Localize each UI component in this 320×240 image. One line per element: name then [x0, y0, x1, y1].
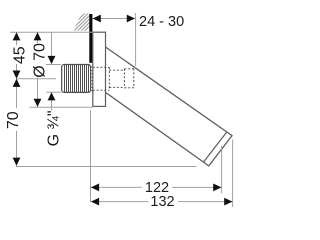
svg-text:70: 70	[5, 111, 22, 129]
extension line: spout lowest point	[16, 166, 196, 168]
dimension dia 70 line	[37, 32, 39, 107]
nut knurling	[65, 65, 89, 93]
dimension 122 right arrow	[213, 184, 221, 192]
dimension 132 right arrow	[224, 198, 232, 206]
extension line: 24-30 right	[135, 13, 137, 66]
dimension 122 left arrow	[91, 184, 99, 192]
extension line: spout tip 132	[232, 140, 234, 208]
dimension 45 top arrow	[13, 32, 21, 40]
dimension 24-30 left arrow	[93, 15, 101, 23]
wall face line	[89, 14, 92, 63]
dimension 24-30 line	[93, 18, 135, 20]
extension line: spout tip 122	[221, 146, 223, 193]
thread G3/4 top arrow	[48, 56, 56, 64]
union nut	[62, 65, 91, 93]
thread G3/4 leader line top	[51, 32, 53, 56]
escutcheon flange	[93, 32, 106, 106]
extension line: flange bottom	[30, 106, 93, 108]
wall hatch	[63, 13, 103, 32]
extension line: wall face below	[90, 110, 92, 202]
extension line: connection axis	[17, 78, 56, 80]
thread G3/4 bottom arrow	[48, 92, 56, 100]
dimension dia 70 bottom arrow	[34, 99, 42, 107]
dimension 45 bottom arrow	[13, 71, 21, 79]
spout end cap inner line	[203, 132, 226, 162]
dimension 122 line	[91, 186, 221, 188]
dimension 45 line	[16, 32, 18, 78]
svg-text:G ¾": G ¾"	[46, 110, 63, 146]
dimension 132 left arrow	[91, 198, 99, 206]
dimension 70 line	[16, 79, 18, 166]
dimension 70 top arrow	[13, 79, 21, 87]
extension line: flange top	[10, 31, 93, 33]
dimension 132 line	[91, 201, 233, 203]
thread G3/4 leader line bottom	[51, 100, 53, 111]
hidden pipe dashed outline	[93, 67, 134, 90]
svg-text:24 - 30: 24 - 30	[139, 14, 184, 30]
dimension 24-30 right arrow	[127, 15, 135, 23]
svg-text:45: 45	[11, 46, 28, 64]
extension line: nut top	[46, 64, 61, 66]
svg-text:132: 132	[150, 194, 174, 210]
svg-text:Ø 70: Ø 70	[32, 43, 49, 78]
extension line: nut bottom	[46, 91, 61, 93]
spout body	[106, 47, 233, 166]
exposed thread ticks	[91, 67, 93, 91]
dimension 70 bottom arrow	[13, 158, 21, 166]
dimension dia 70 top arrow	[34, 32, 42, 40]
